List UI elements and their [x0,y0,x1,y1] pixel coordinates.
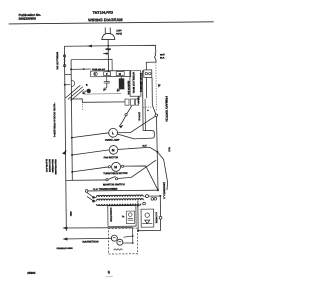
wire turntable right [124,166,158,191]
wire interlock row feed [71,98,125,102]
arrow into buzzer [83,91,87,94]
fan motor circle [109,146,118,155]
mechanical linkage dashes [81,104,83,111]
svg-text:B: B [86,84,88,87]
wire upper loop [71,59,112,71]
oven relay output wire (U-turn) [134,131,154,139]
wire right bus down [141,71,144,131]
transformer left terminals [92,196,95,199]
svg-text:BLK: BLK [168,147,171,152]
svg-text:BLK: BLK [160,56,165,59]
transformer feed wire [88,189,158,192]
svg-text:WHT: WHT [160,53,166,56]
svg-text:GRN: GRN [69,211,72,216]
primary switch contact circle [155,114,158,117]
svg-text:SENSOR SW.: SENSOR SW. [127,81,130,96]
turntable motor circle [112,162,121,171]
svg-text:P: P [106,73,108,76]
wire squiggle to connector [146,62,156,70]
svg-text:PRIMARY SWITCH: PRIMARY SWITCH [164,96,168,122]
branch to HV transformer [157,152,167,190]
svg-text:M: M [119,73,121,76]
filament wire arrows [62,226,67,229]
wire filter to control box [129,72,132,74]
primary right terminal [145,195,148,198]
header rule line [9,22,214,24]
svg-text:RELAY: RELAY [137,97,140,105]
wire connector down legs [145,78,147,98]
svg-text:INTERLOCK MON.: INTERLOCK MON. [132,72,135,93]
wire filter feed [71,68,91,70]
HV capacitor box [108,206,136,227]
twisted pair hatch lines [65,85,84,100]
svg-text:H.V. TRANSFORMER: H.V. TRANSFORMER [93,188,117,191]
wire primary switch to lower bus [156,117,158,191]
relay contact rects [125,99,129,105]
magnetron filament circles [111,235,117,241]
svg-text:CAPACITOR: CAPACITOR [109,207,112,221]
fuse F inside filter [94,72,97,75]
svg-text:INTERLOCK SW.: INTERLOCK SW. [55,52,58,70]
svg-text:TURNTABLE MOTOR: TURNTABLE MOTOR [103,172,128,175]
filter enclosure bottom [83,93,121,95]
plug P1 (power cord plug) [102,27,115,70]
linkage arrowhead [158,84,161,88]
HV diode box [141,209,154,227]
wire turntable left [72,167,108,172]
svg-text:GRN: GRN [105,48,111,51]
buzzer component [86,89,90,93]
svg-text:60HZ: 60HZ [116,32,122,35]
svg-text:7A: 7A [122,215,125,218]
svg-text:MONITOR SWITCH: MONITOR SWITCH [103,183,125,186]
svg-text:TMT104,F/03: TMT104,F/03 [93,11,114,15]
svg-text:M: M [114,165,117,169]
wire lamp left [72,133,109,138]
cord squiggle (strain relief) [154,50,156,62]
svg-text:6: 6 [108,269,111,274]
wire bus1 to bus2 [65,73,71,75]
control box with vertical text [130,71,141,97]
svg-text:L: L [112,131,114,135]
svg-text:DOOR SENSING: DOOR SENSING [139,73,142,92]
secondary terminals [143,202,146,205]
svg-text:MAGNETRON: MAGNETRON [83,240,99,243]
svg-text:M: M [112,148,115,152]
wire top bus [64,45,155,51]
svg-text:GRN=GREEN: GRN=GREEN [51,159,54,173]
wire bus1 stub [65,84,70,86]
svg-text:FUSE 15A N.F.: FUSE 15A N.F. [92,68,106,71]
svg-text:GRN/WHT+GRN: GRN/WHT+GRN [57,247,74,250]
svg-text:(CON-A): (CON-A) [138,112,141,121]
cord drop arrow [103,53,108,55]
door linkage dashed line [155,62,158,111]
svg-text:*: * [147,109,149,113]
filter component rects [104,72,111,76]
filter cap 1 [104,77,110,88]
magnetron dashed box [108,228,137,254]
right HV wire [159,196,161,230]
cord drop junction [108,70,110,72]
crossing wire to monitor switch [117,160,156,179]
secondary switch blade [127,106,132,114]
oven lamp circle [109,128,118,137]
svg-text:(ORG/GRN) L.V.: (ORG/GRN) L.V. [162,182,165,200]
wire lamp to relay [118,134,134,139]
monitor switch contacts [106,179,108,181]
svg-text:H.V. DIODE: H.V. DIODE [155,212,158,224]
transformer secondary coil [97,204,141,206]
transformer primary coil row 2 [97,199,144,201]
noise filter box [91,71,131,77]
magnetron terminals [132,228,134,243]
HV bus vertical [137,201,139,231]
svg-text:BLK: BLK [142,144,147,147]
svg-text:OVEN LAMP: OVEN LAMP [105,139,120,142]
wire fan left [72,150,109,155]
connector box CON-B [144,70,152,78]
svg-text:* NOTE: DOOR IS OPEN (2/3H+): * NOTE: DOOR IS OPEN (2/3H+) [53,103,56,138]
filter cap 2 (dark) [119,78,125,89]
wire fan right [118,147,158,152]
svg-text:BLK=BLACK: BLK=BLACK [45,159,48,172]
wire lamp right to primary switch [117,116,155,132]
wire control to connector [142,70,143,72]
left bus wire (GRN) [64,46,66,231]
primary switch blade [152,105,155,114]
svg-text:FAN MOTOR: FAN MOTOR [104,156,119,159]
transformer primary coil row 1 [96,195,143,197]
svg-text:WHT=WHITE: WHT=WHITE [48,159,51,172]
wire switch to oven lamp [119,116,126,127]
loop coil on bus2 [71,80,74,86]
junction dot [64,84,66,86]
svg-text:WIRING DIAGRAM: WIRING DIAGRAM [88,17,123,22]
second left bus wire [71,60,72,181]
thermal element on left bus [63,55,65,57]
svg-text:35960: 35960 [27,271,36,275]
svg-text:5995299506: 5995299506 [19,17,37,21]
arrow on left bus [62,150,67,155]
monitor switch wire [66,179,106,181]
svg-text:ORG=ORANGE: ORG=ORANGE [54,159,57,175]
arrowhead on top wire [87,45,92,48]
